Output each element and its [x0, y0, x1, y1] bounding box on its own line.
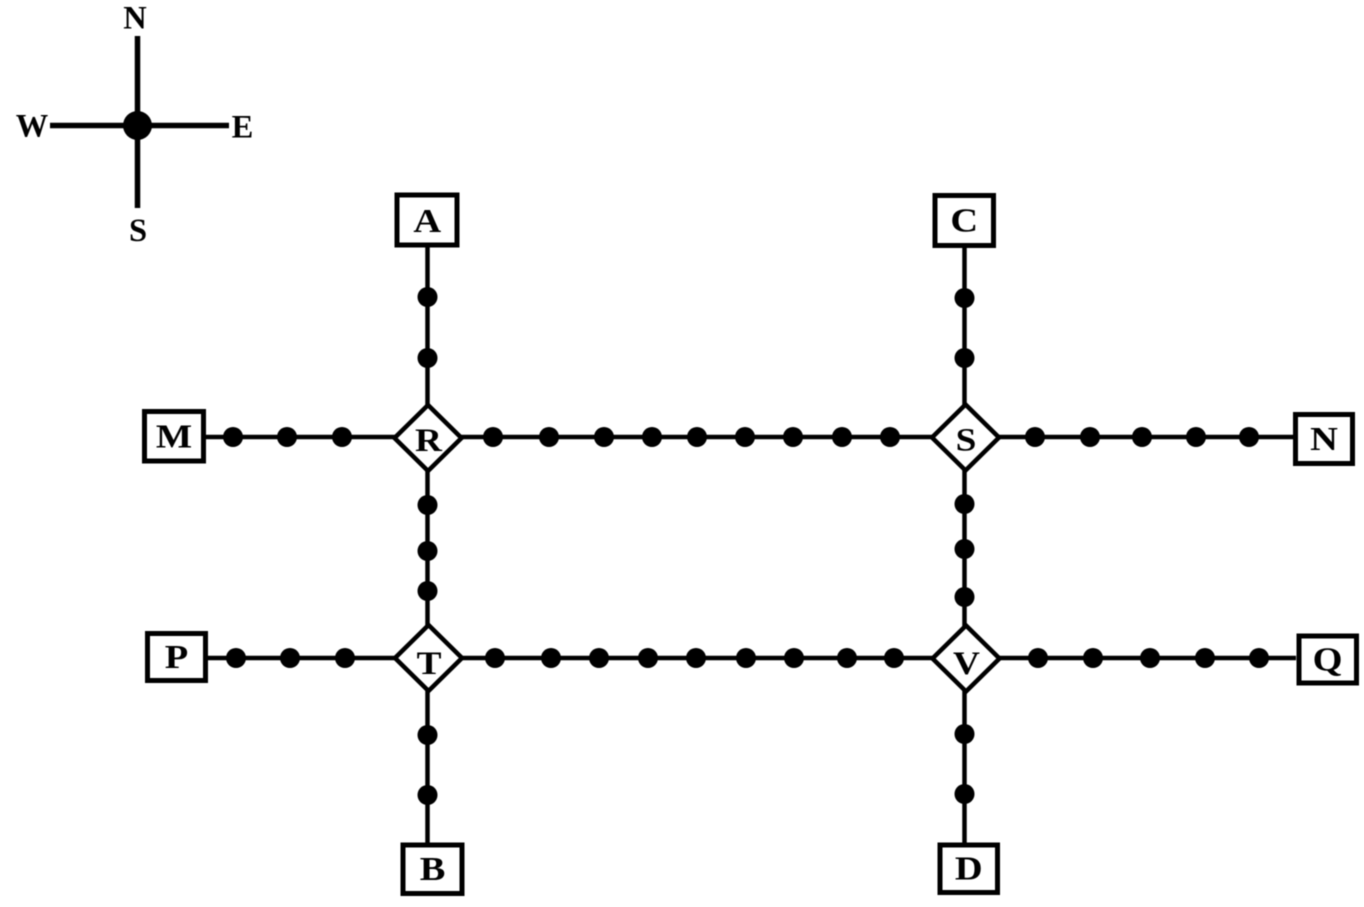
compass rose	[16, 1, 254, 250]
svg-text:E: E	[232, 110, 254, 146]
svg-text:S: S	[956, 421, 977, 458]
svg-text:N: N	[1310, 420, 1338, 457]
svg-text:V: V	[953, 645, 981, 682]
junction diamond R	[395, 405, 462, 471]
station box A	[397, 195, 457, 245]
dots M-R	[223, 427, 352, 447]
svg-text:N: N	[123, 1, 147, 37]
svg-text:W: W	[16, 109, 49, 145]
dots T-B	[418, 725, 438, 805]
station box P	[148, 634, 206, 681]
wire row2 P-Q	[208, 656, 1296, 661]
dots V-Q	[1028, 648, 1269, 668]
svg-text:T: T	[417, 645, 442, 682]
station box M	[145, 412, 204, 462]
dots A-R	[418, 287, 438, 368]
dots P-T	[226, 648, 355, 668]
dots V-D	[955, 724, 975, 804]
svg-text:D: D	[955, 850, 983, 887]
station box D	[940, 845, 998, 893]
dots S-V	[955, 494, 975, 607]
dots S-N	[1025, 427, 1259, 447]
svg-text:P: P	[165, 638, 188, 675]
wire col2 C-D	[962, 247, 967, 843]
svg-text:S: S	[129, 213, 147, 249]
station box Q	[1299, 636, 1357, 683]
junction diamond V	[933, 626, 1000, 692]
dots T-V	[485, 648, 904, 668]
svg-text:R: R	[415, 422, 443, 459]
dots R-T	[418, 495, 438, 601]
svg-text:B: B	[420, 850, 446, 887]
svg-text:M: M	[156, 418, 192, 455]
junction diamond T	[395, 625, 462, 691]
dots R-S	[483, 427, 900, 447]
svg-text:A: A	[413, 202, 441, 239]
svg-text:Q: Q	[1313, 641, 1343, 678]
wire row1 M-N	[206, 435, 1293, 440]
station box C	[935, 196, 994, 246]
svg-text:C: C	[950, 202, 978, 239]
wire col1 A-B	[425, 247, 430, 843]
dots C-S	[955, 288, 975, 368]
station box N	[1296, 415, 1353, 464]
station box B	[403, 845, 462, 894]
junction diamond S	[932, 405, 999, 471]
